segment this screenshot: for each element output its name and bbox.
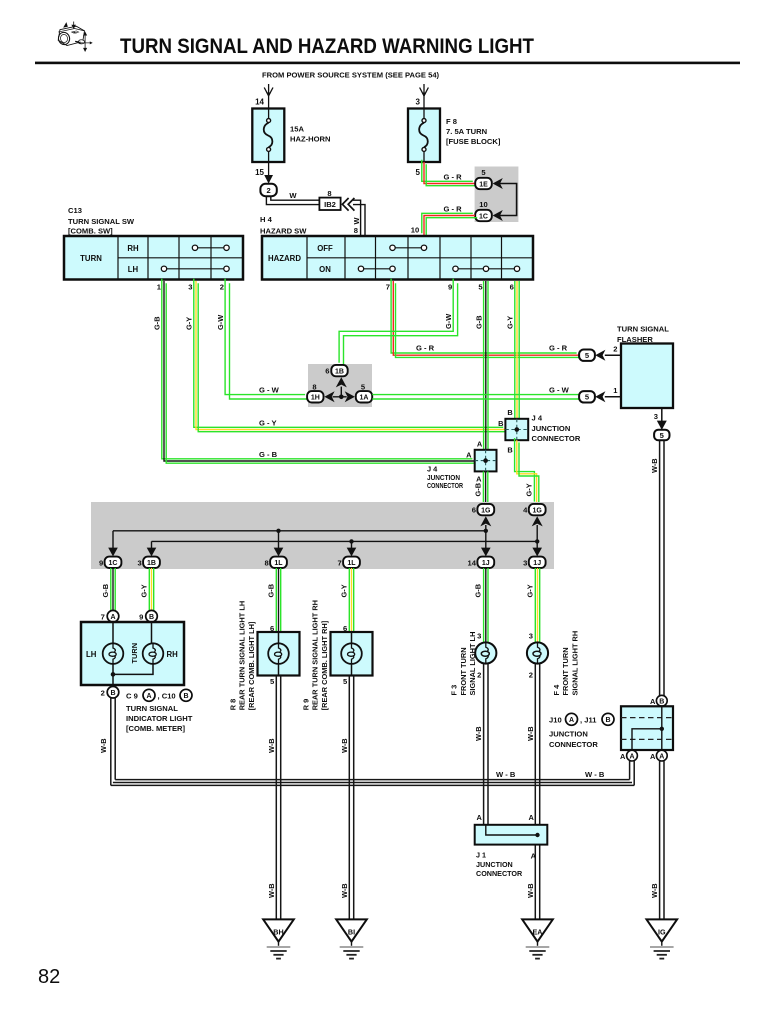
svg-text:[REAR COMB. LIGHT LH]: [REAR COMB. LIGHT LH] <box>247 621 256 710</box>
svg-text:3: 3 <box>654 412 658 421</box>
bulb LH indicator <box>103 643 124 664</box>
power feed arrow left <box>264 84 273 109</box>
wire W-B J10 pin A right to ground IG <box>660 761 664 919</box>
svg-text:1L: 1L <box>347 560 356 567</box>
up arrow into 1G pin6 <box>480 516 491 526</box>
svg-text:J10: J10 <box>549 715 562 724</box>
svg-text:14: 14 <box>468 558 477 567</box>
title rule <box>35 62 740 65</box>
rear turn signal light RH box <box>331 632 373 676</box>
svg-text:B: B <box>149 614 154 621</box>
arrow into 1H <box>324 391 334 402</box>
svg-text:REAR TURN SIGNAL LIGHT RH: REAR TURN SIGNAL LIGHT RH <box>311 600 320 710</box>
H4 ON contacts left <box>358 266 395 271</box>
comb meter internal wires <box>113 622 153 686</box>
svg-text:[COMB. SW]: [COMB. SW] <box>68 227 113 236</box>
svg-text:HAZARD SW: HAZARD SW <box>260 227 307 236</box>
svg-text:W-B: W-B <box>267 738 276 753</box>
svg-text:A: A <box>476 813 482 822</box>
svg-text:6: 6 <box>325 367 329 376</box>
svg-text:3: 3 <box>188 283 192 292</box>
arrow into 1E <box>493 178 503 189</box>
svg-text:8: 8 <box>354 226 358 235</box>
double chevron <box>342 198 354 211</box>
wire W-B rear LH to ground BH <box>276 676 280 920</box>
svg-text:8: 8 <box>264 558 268 567</box>
header icon: turn signal switch drawing <box>57 22 92 52</box>
svg-text:B: B <box>498 419 503 428</box>
svg-text:LH: LH <box>86 650 97 659</box>
svg-text:A: A <box>531 851 537 860</box>
ground BI <box>336 919 367 958</box>
connector oval 5 (flasher pin3) <box>654 430 669 441</box>
svg-text:G - R: G - R <box>549 344 568 353</box>
svg-text:W-B: W-B <box>526 883 535 898</box>
svg-text:RH: RH <box>127 244 139 253</box>
svg-text:REAR TURN SIGNAL LIGHT LH: REAR TURN SIGNAL LIGHT LH <box>238 601 247 711</box>
svg-text:G-Y: G-Y <box>506 316 515 329</box>
svg-text:3: 3 <box>523 558 527 567</box>
svg-text:G-Y: G-Y <box>185 317 194 330</box>
svg-text:3: 3 <box>477 632 481 641</box>
svg-text:3: 3 <box>137 558 141 567</box>
svg-text:G-Y: G-Y <box>339 584 348 597</box>
wire W-B horizontal ground bus <box>111 780 634 786</box>
svg-text:A: A <box>659 753 664 760</box>
flasher pin1 wire and arrow <box>605 396 621 398</box>
svg-text:14: 14 <box>255 98 264 107</box>
svg-text:, J11: , J11 <box>580 715 597 724</box>
wire G-R hazard pin7 to flasher pin2 <box>391 279 581 358</box>
svg-text:F 3: F 3 <box>450 685 459 696</box>
bulb RH indicator <box>143 643 164 664</box>
svg-text:RH: RH <box>167 650 179 659</box>
internal link wire 1E to 1C <box>499 184 517 216</box>
rear turn signal light LH box <box>258 632 300 676</box>
svg-text:[REAR COMB. LIGHT RH]: [REAR COMB. LIGHT RH] <box>320 620 329 710</box>
turn signal flasher box <box>621 344 673 409</box>
fuse F8 7.5A TURN <box>408 109 501 163</box>
svg-text:SIGNAL LIGHT LH: SIGNAL LIGHT LH <box>468 632 477 696</box>
svg-text:J 1: J 1 <box>476 850 486 859</box>
svg-text:A: A <box>629 753 634 760</box>
svg-text:HAZ-HORN: HAZ-HORN <box>290 135 331 144</box>
connector oval 5 (flasher pin1) <box>579 391 595 402</box>
arrow into 1C <box>493 210 503 221</box>
turn signal switch C13 box <box>64 236 243 280</box>
svg-text:HAZARD: HAZARD <box>268 254 301 263</box>
svg-text:CONNECTOR: CONNECTOR <box>532 434 581 443</box>
up arrow into 1G pin4 <box>532 516 543 526</box>
wire G-Y hazard pin6 to J4 upper <box>515 281 519 419</box>
J4 lower junction connector box <box>475 450 497 472</box>
svg-text:W-B: W-B <box>340 738 349 753</box>
svg-text:A: A <box>477 439 483 448</box>
svg-text:G - Y: G - Y <box>259 418 277 427</box>
svg-text:2: 2 <box>266 186 270 195</box>
wire W-B comb meter down <box>111 698 115 786</box>
svg-text:TURN: TURN <box>130 643 139 664</box>
svg-text:B: B <box>605 717 610 724</box>
C13 LH contacts <box>161 266 229 271</box>
connector oval 1A <box>356 391 372 402</box>
flasher pin3 wire and down arrow <box>661 408 663 422</box>
svg-text:1J: 1J <box>533 560 541 567</box>
svg-text:G-B: G-B <box>474 584 483 598</box>
svg-text:G - W: G - W <box>549 386 570 395</box>
gray junction band <box>91 502 554 569</box>
wire W-B front RH down through J1 to ground EA <box>535 664 539 920</box>
svg-text:W: W <box>352 218 361 225</box>
wire G-Y 1J to front RH light <box>535 568 539 642</box>
H4 OFF contacts <box>390 245 427 250</box>
svg-text:7: 7 <box>337 558 341 567</box>
wire G-R 1C to hazard pin 10 <box>422 213 477 237</box>
svg-text:2: 2 <box>477 671 481 680</box>
svg-text:JUNCTION: JUNCTION <box>476 860 513 869</box>
svg-text:1E: 1E <box>479 181 488 188</box>
ground IG <box>647 919 678 958</box>
wire G-Y 1B to comb meter pin B <box>149 568 153 611</box>
svg-text:2: 2 <box>529 671 533 680</box>
svg-text:1G: 1G <box>533 507 543 514</box>
up arrow into 1B <box>336 377 347 387</box>
J10/J11 junction connector box <box>621 706 673 750</box>
wire G-B 1C to comb meter pin A <box>111 568 115 611</box>
svg-text:3: 3 <box>416 98 421 107</box>
svg-text:W - B: W - B <box>496 770 516 779</box>
svg-text:G-B: G-B <box>474 315 483 329</box>
svg-text:W-B: W-B <box>526 726 535 741</box>
svg-text:IG: IG <box>658 928 666 937</box>
svg-text:A: A <box>528 813 534 822</box>
svg-text:W: W <box>289 191 297 200</box>
front turn signal light LH bulb <box>475 642 496 663</box>
wire G-R fuse F8 to 1E <box>422 160 477 186</box>
svg-text:W-B: W-B <box>474 726 483 741</box>
svg-text:1B: 1B <box>147 560 156 567</box>
bulb rear RH <box>341 643 362 664</box>
svg-text:A: A <box>476 474 482 483</box>
svg-text:6: 6 <box>510 283 514 292</box>
svg-text:2: 2 <box>220 283 224 292</box>
connector oval 1C <box>475 210 492 221</box>
svg-text:G-W: G-W <box>216 315 225 330</box>
svg-text:1H: 1H <box>311 395 320 402</box>
svg-text:OFF: OFF <box>317 244 333 253</box>
svg-text:B: B <box>183 693 188 700</box>
svg-text:JUNCTION: JUNCTION <box>549 729 588 738</box>
svg-text:W-B: W-B <box>267 883 276 898</box>
wire G-Y 1L to rear RH light <box>349 568 353 632</box>
connector oval 1G pin6 <box>477 504 494 515</box>
svg-text:A: A <box>569 717 574 724</box>
svg-text:C 9: C 9 <box>126 691 138 700</box>
svg-text:R 8: R 8 <box>229 699 238 711</box>
svg-text:A: A <box>620 752 626 761</box>
svg-text:TURN SIGNAL SW: TURN SIGNAL SW <box>68 217 135 226</box>
svg-text:CONNECTOR: CONNECTOR <box>427 481 463 490</box>
IB2 box <box>319 198 340 210</box>
svg-text:9: 9 <box>139 612 143 621</box>
svg-text:CONNECTOR: CONNECTOR <box>476 869 523 878</box>
svg-text:1G: 1G <box>481 507 491 514</box>
wire W from oval 2 to IB2 <box>266 196 319 205</box>
svg-text:A: A <box>466 450 472 459</box>
wire W-B front LH to J1 <box>484 664 488 825</box>
svg-text:2: 2 <box>613 345 617 354</box>
svg-text:IB2: IB2 <box>324 200 336 209</box>
svg-text:, C10: , C10 <box>158 691 176 700</box>
wire G-Y from C13 pin3 to J4 upper <box>194 279 508 432</box>
svg-text:8: 8 <box>312 382 316 391</box>
arrow into 1A <box>345 391 355 402</box>
svg-text:A: A <box>650 752 656 761</box>
svg-text:1C: 1C <box>109 560 118 567</box>
svg-text:G-B: G-B <box>101 584 110 598</box>
svg-text:1A: 1A <box>360 395 369 402</box>
wire G-B 1J to front LH light <box>484 568 488 642</box>
svg-text:7: 7 <box>386 283 390 292</box>
bulb rear LH <box>268 643 289 664</box>
svg-text:FRONT TURN: FRONT TURN <box>561 647 570 695</box>
svg-text:A: A <box>650 697 656 706</box>
svg-text:6: 6 <box>472 506 476 515</box>
connector oval 1H <box>307 391 323 402</box>
svg-text:G - B: G - B <box>259 450 278 459</box>
svg-text:G-B: G-B <box>266 584 275 598</box>
svg-text:F 8: F 8 <box>446 117 457 126</box>
wire G-W 1A to flasher pin1 <box>372 395 579 399</box>
svg-text:[FUSE BLOCK]: [FUSE BLOCK] <box>446 137 501 146</box>
svg-text:9: 9 <box>448 283 452 292</box>
svg-text:EA: EA <box>533 928 543 937</box>
svg-text:1C: 1C <box>479 213 488 220</box>
svg-text:G - R: G - R <box>416 344 435 353</box>
front turn signal light RH bulb <box>527 642 548 663</box>
svg-text:10: 10 <box>479 200 487 209</box>
wire fuse to connector 2 with arrow <box>264 162 273 184</box>
svg-text:W-B: W-B <box>340 883 349 898</box>
svg-text:2: 2 <box>101 688 105 697</box>
svg-text:BH: BH <box>273 928 283 937</box>
wire W-B flasher to J10 <box>660 440 664 695</box>
svg-text:TURN: TURN <box>80 254 102 263</box>
wire G-Y J4 upper to 1G pin4 <box>515 438 539 506</box>
svg-text:G - R: G - R <box>444 172 463 181</box>
svg-text:7. 5A TURN: 7. 5A TURN <box>446 127 487 136</box>
svg-text:FRONT TURN: FRONT TURN <box>459 647 468 695</box>
svg-text:BI: BI <box>348 928 355 937</box>
svg-text:3: 3 <box>529 632 533 641</box>
svg-text:7: 7 <box>101 612 105 621</box>
svg-text:10: 10 <box>411 226 419 235</box>
svg-text:R 9: R 9 <box>302 699 311 711</box>
svg-text:1L: 1L <box>274 560 283 567</box>
junction internal lines and dot <box>333 387 347 397</box>
svg-text:JUNCTION: JUNCTION <box>532 424 571 433</box>
gray block 1H/1B/1A <box>308 364 372 407</box>
svg-text:[COMB. METER]: [COMB. METER] <box>126 724 186 733</box>
svg-text:TURN SIGNAL: TURN SIGNAL <box>617 325 669 334</box>
svg-text:A: A <box>110 614 115 621</box>
svg-text:INDICATOR LIGHT: INDICATOR LIGHT <box>126 714 193 723</box>
svg-text:G-B: G-B <box>473 483 482 497</box>
wire G-B from C13 pin1 to J4 lower <box>162 279 477 463</box>
svg-text:CONNECTOR: CONNECTOR <box>549 740 598 749</box>
ground BH <box>263 919 294 958</box>
wire W-B from J10 pin A left down to bus <box>630 761 635 785</box>
wire W from chevron to hazard sw pin 8 <box>353 200 365 236</box>
J4 upper junction connector box <box>505 419 528 440</box>
svg-text:B: B <box>507 408 512 417</box>
connector oval 5 (flasher pin2) <box>579 350 595 361</box>
svg-text:TURN SIGNAL AND HAZARD WARNING: TURN SIGNAL AND HAZARD WARNING LIGHT <box>120 35 534 58</box>
svg-text:A: A <box>146 693 151 700</box>
connector oval 1E <box>475 178 492 189</box>
svg-text:G-Y: G-Y <box>139 584 148 597</box>
svg-text:W-B: W-B <box>99 738 108 753</box>
svg-text:15A: 15A <box>290 125 304 134</box>
svg-text:C13: C13 <box>68 206 82 215</box>
svg-text:FROM POWER SOURCE SYSTEM (SEE: FROM POWER SOURCE SYSTEM (SEE PAGE 54) <box>262 71 440 80</box>
turn signal indicator light box (comb meter) <box>81 622 184 685</box>
svg-text:F 4: F 4 <box>552 684 561 696</box>
H4 ON contacts right <box>453 266 520 271</box>
wire G-W from C13 pin2 to 1H <box>225 279 309 399</box>
svg-text:LH: LH <box>128 265 139 274</box>
svg-text:ON: ON <box>319 265 331 274</box>
ground EA <box>522 919 553 958</box>
svg-text:G-Y: G-Y <box>525 584 534 597</box>
svg-text:G-B: G-B <box>153 316 162 330</box>
svg-text:G-Y: G-Y <box>525 483 534 496</box>
svg-text:B: B <box>659 699 664 706</box>
svg-text:1J: 1J <box>482 560 490 567</box>
wire G-B hazard pin5 to J4 lower <box>484 281 488 450</box>
connector oval 2 <box>260 184 276 196</box>
svg-text:J 4: J 4 <box>532 413 543 422</box>
svg-text:W - B: W - B <box>585 770 605 779</box>
fuse 15A HAZ-HORN <box>252 109 330 163</box>
svg-text:G - R: G - R <box>444 204 463 213</box>
flasher pin2 wire and arrow <box>605 354 621 356</box>
svg-text:B: B <box>110 690 115 697</box>
svg-text:G - W: G - W <box>259 386 280 395</box>
gray connector block 1E/1C <box>475 167 519 223</box>
wire G-B 1L to rear LH light <box>276 568 280 632</box>
svg-text:8: 8 <box>327 189 331 198</box>
svg-text:82: 82 <box>38 966 60 988</box>
svg-text:1B: 1B <box>335 368 344 375</box>
svg-text:H 4: H 4 <box>260 215 273 224</box>
wire G-B J4 lower to 1G pin6 <box>483 471 487 503</box>
svg-text:B: B <box>507 445 512 454</box>
wire G-W hazard pin9 to 1B <box>339 279 458 367</box>
band internal bus lower <box>152 525 538 548</box>
svg-text:TURN SIGNAL: TURN SIGNAL <box>126 704 178 713</box>
hazard switch H4 box <box>262 236 533 280</box>
svg-text:G-W: G-W <box>444 314 453 329</box>
C13 RH contacts <box>192 245 229 250</box>
connector oval 1G pin4 <box>529 504 546 515</box>
connector oval 1B <box>331 365 347 376</box>
svg-text:SIGNAL LIGHT RH: SIGNAL LIGHT RH <box>570 631 579 696</box>
down arrows into bottom connector row <box>108 548 118 557</box>
J1 junction connector box <box>475 825 548 845</box>
band internal bus upper <box>113 525 486 548</box>
svg-text:W-B: W-B <box>650 458 659 473</box>
svg-text:W-B: W-B <box>650 883 659 898</box>
wire W-B rear RH to ground BI <box>349 676 353 920</box>
svg-text:5: 5 <box>416 168 421 177</box>
svg-text:15: 15 <box>255 168 264 177</box>
svg-text:9: 9 <box>99 558 103 567</box>
power feed arrow right <box>420 84 429 109</box>
